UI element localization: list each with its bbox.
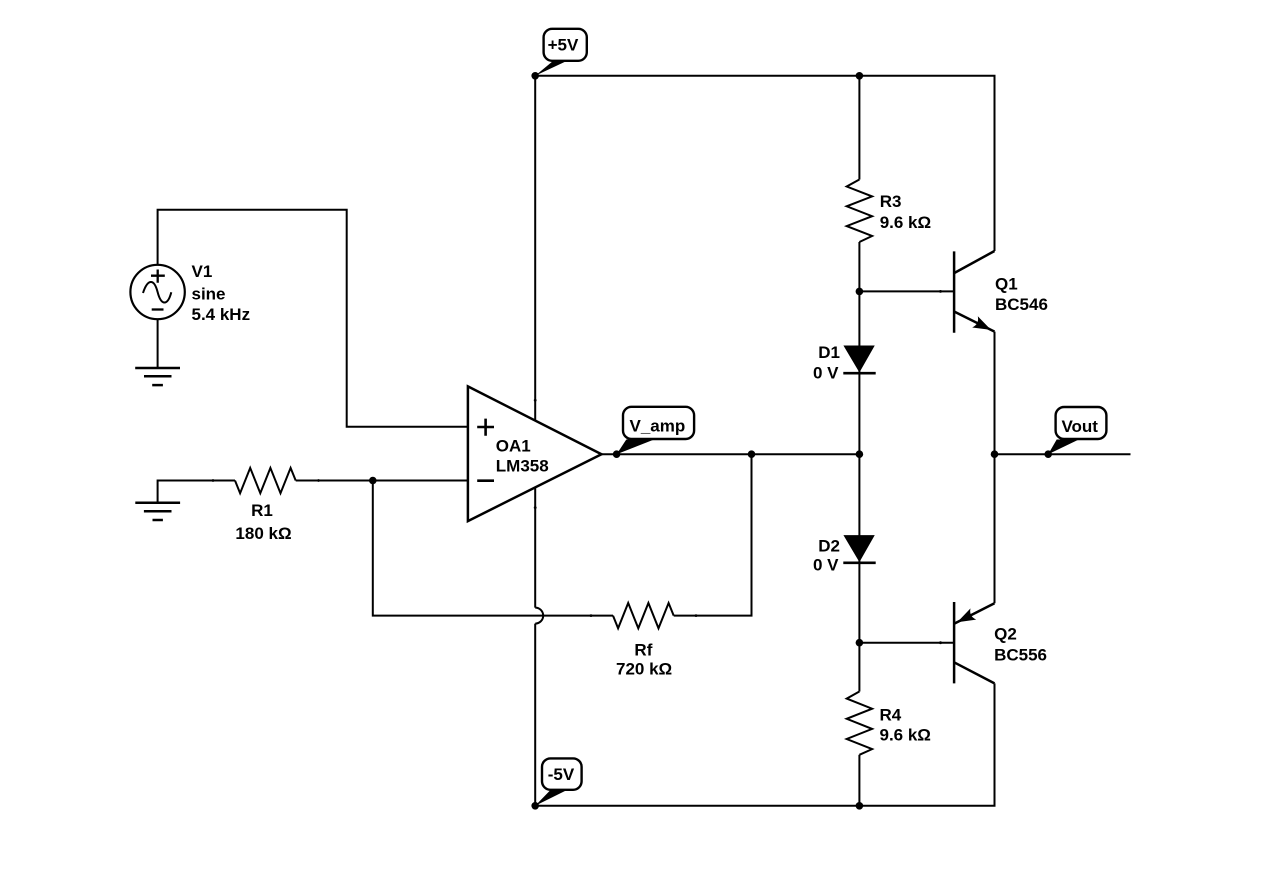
svg-text:V_amp: V_amp <box>630 416 686 435</box>
wire output <box>995 453 1131 455</box>
wire feedback left vertical <box>373 481 613 616</box>
svg-text:LM358: LM358 <box>496 457 549 476</box>
svg-text:sine: sine <box>192 285 226 304</box>
V1 labels <box>192 262 251 324</box>
svg-text:V1: V1 <box>192 262 213 281</box>
junction dot feedback tap at output <box>748 450 756 458</box>
svg-text:R4: R4 <box>880 705 902 724</box>
pin nub op-amp V+ <box>534 399 537 402</box>
wire hop over feedback <box>535 608 543 624</box>
pin nub Rf right <box>695 614 698 617</box>
D2 labels <box>813 536 840 574</box>
pin nub Q1 base <box>939 290 942 293</box>
R4 labels <box>880 705 931 744</box>
node -5V flag <box>535 758 581 805</box>
svg-text:D1: D1 <box>818 343 840 362</box>
svg-text:BC556: BC556 <box>994 646 1047 665</box>
svg-text:0 V: 0 V <box>813 556 839 575</box>
node -5V junction dot <box>531 802 539 810</box>
junction dot Q2 base tap <box>856 639 864 647</box>
node +5V flag <box>535 29 587 76</box>
wire diode branch vertical <box>858 242 860 692</box>
svg-text:9.6 kΩ: 9.6 kΩ <box>880 726 931 745</box>
resistor R3 <box>847 180 872 243</box>
wire Q2 emitter to Vout <box>994 454 996 603</box>
svg-text:D2: D2 <box>818 536 840 555</box>
junction dot Q1 base tap <box>856 288 864 296</box>
diode D1 <box>843 346 875 373</box>
svg-text:R1: R1 <box>251 501 273 520</box>
wire +5V supply vertical upper <box>534 76 536 421</box>
junction dot bottom rail R4 tap <box>856 802 864 810</box>
wire Rf to feedback right vertical <box>674 454 752 615</box>
wire Q1 emitter to Vout <box>994 332 996 455</box>
wire R4 bottom lead <box>858 755 860 806</box>
svg-text:BC546: BC546 <box>995 295 1048 314</box>
wire top rail <box>535 76 994 251</box>
svg-text:Q1: Q1 <box>995 274 1018 293</box>
pin nub R1 left <box>212 479 215 482</box>
junction dot diode midpoint <box>856 450 864 458</box>
transistor Q1 <box>954 251 994 333</box>
junction dot emitters <box>991 450 999 458</box>
voltage source V1 <box>130 265 184 319</box>
Q2 labels <box>994 624 1047 664</box>
OA1 labels <box>496 437 549 476</box>
D1 labels <box>813 343 840 383</box>
pin nub Rf left <box>590 614 593 617</box>
svg-text:5.4 kHz: 5.4 kHz <box>192 305 251 324</box>
resistor R4 <box>847 692 872 755</box>
wire ground stub to R1 <box>158 481 235 503</box>
ground under V1 <box>135 368 180 385</box>
node +5V junction dot <box>531 72 539 80</box>
node V_amp flag <box>617 407 695 454</box>
svg-text:9.6 kΩ: 9.6 kΩ <box>880 213 931 232</box>
svg-text:Q2: Q2 <box>994 624 1017 643</box>
op-amp OA1 <box>468 386 602 521</box>
junction dot top rail R3 tap <box>856 72 864 80</box>
Q1 labels <box>995 274 1048 314</box>
pin nub op-amp V- <box>534 506 537 509</box>
svg-text:0 V: 0 V <box>813 363 839 382</box>
wire bottom rail <box>535 683 994 805</box>
Rf labels <box>616 641 672 679</box>
wire V1 top to corner <box>158 210 468 427</box>
wire V1 bottom to ground <box>157 319 159 368</box>
junction dot feedback tap at R1 <box>369 477 377 485</box>
wire supply vertical below op-amp <box>534 487 536 608</box>
resistor Rf <box>613 603 674 628</box>
resistor R1 <box>235 468 296 493</box>
node Vout junction dot <box>1044 450 1052 458</box>
svg-text:-5V: -5V <box>548 765 575 784</box>
wire R1 to op-amp inverting input <box>296 480 468 482</box>
svg-text:OA1: OA1 <box>496 437 531 456</box>
wire Q1 base <box>859 290 954 292</box>
R1 labels <box>235 501 291 543</box>
svg-text:720 kΩ: 720 kΩ <box>616 659 672 678</box>
svg-text:180 kΩ: 180 kΩ <box>235 524 291 543</box>
diode D2 <box>843 536 875 563</box>
wire supply vertical lower <box>534 624 536 806</box>
svg-text:R3: R3 <box>880 192 902 211</box>
pin nub R1 right <box>317 479 320 482</box>
node Vout flag <box>1048 407 1106 454</box>
ground at R1 input <box>135 503 180 520</box>
transistor Q2 <box>954 602 994 683</box>
wire op-amp output <box>602 453 860 455</box>
svg-text:Rf: Rf <box>634 641 652 660</box>
svg-text:+5V: +5V <box>548 36 579 55</box>
wire R3 top lead <box>858 76 860 180</box>
node V_amp junction dot <box>613 450 621 458</box>
wire Q2 base <box>859 642 954 644</box>
R3 labels <box>880 192 931 232</box>
pin nub Q2 base <box>939 641 942 644</box>
svg-text:Vout: Vout <box>1061 417 1098 436</box>
